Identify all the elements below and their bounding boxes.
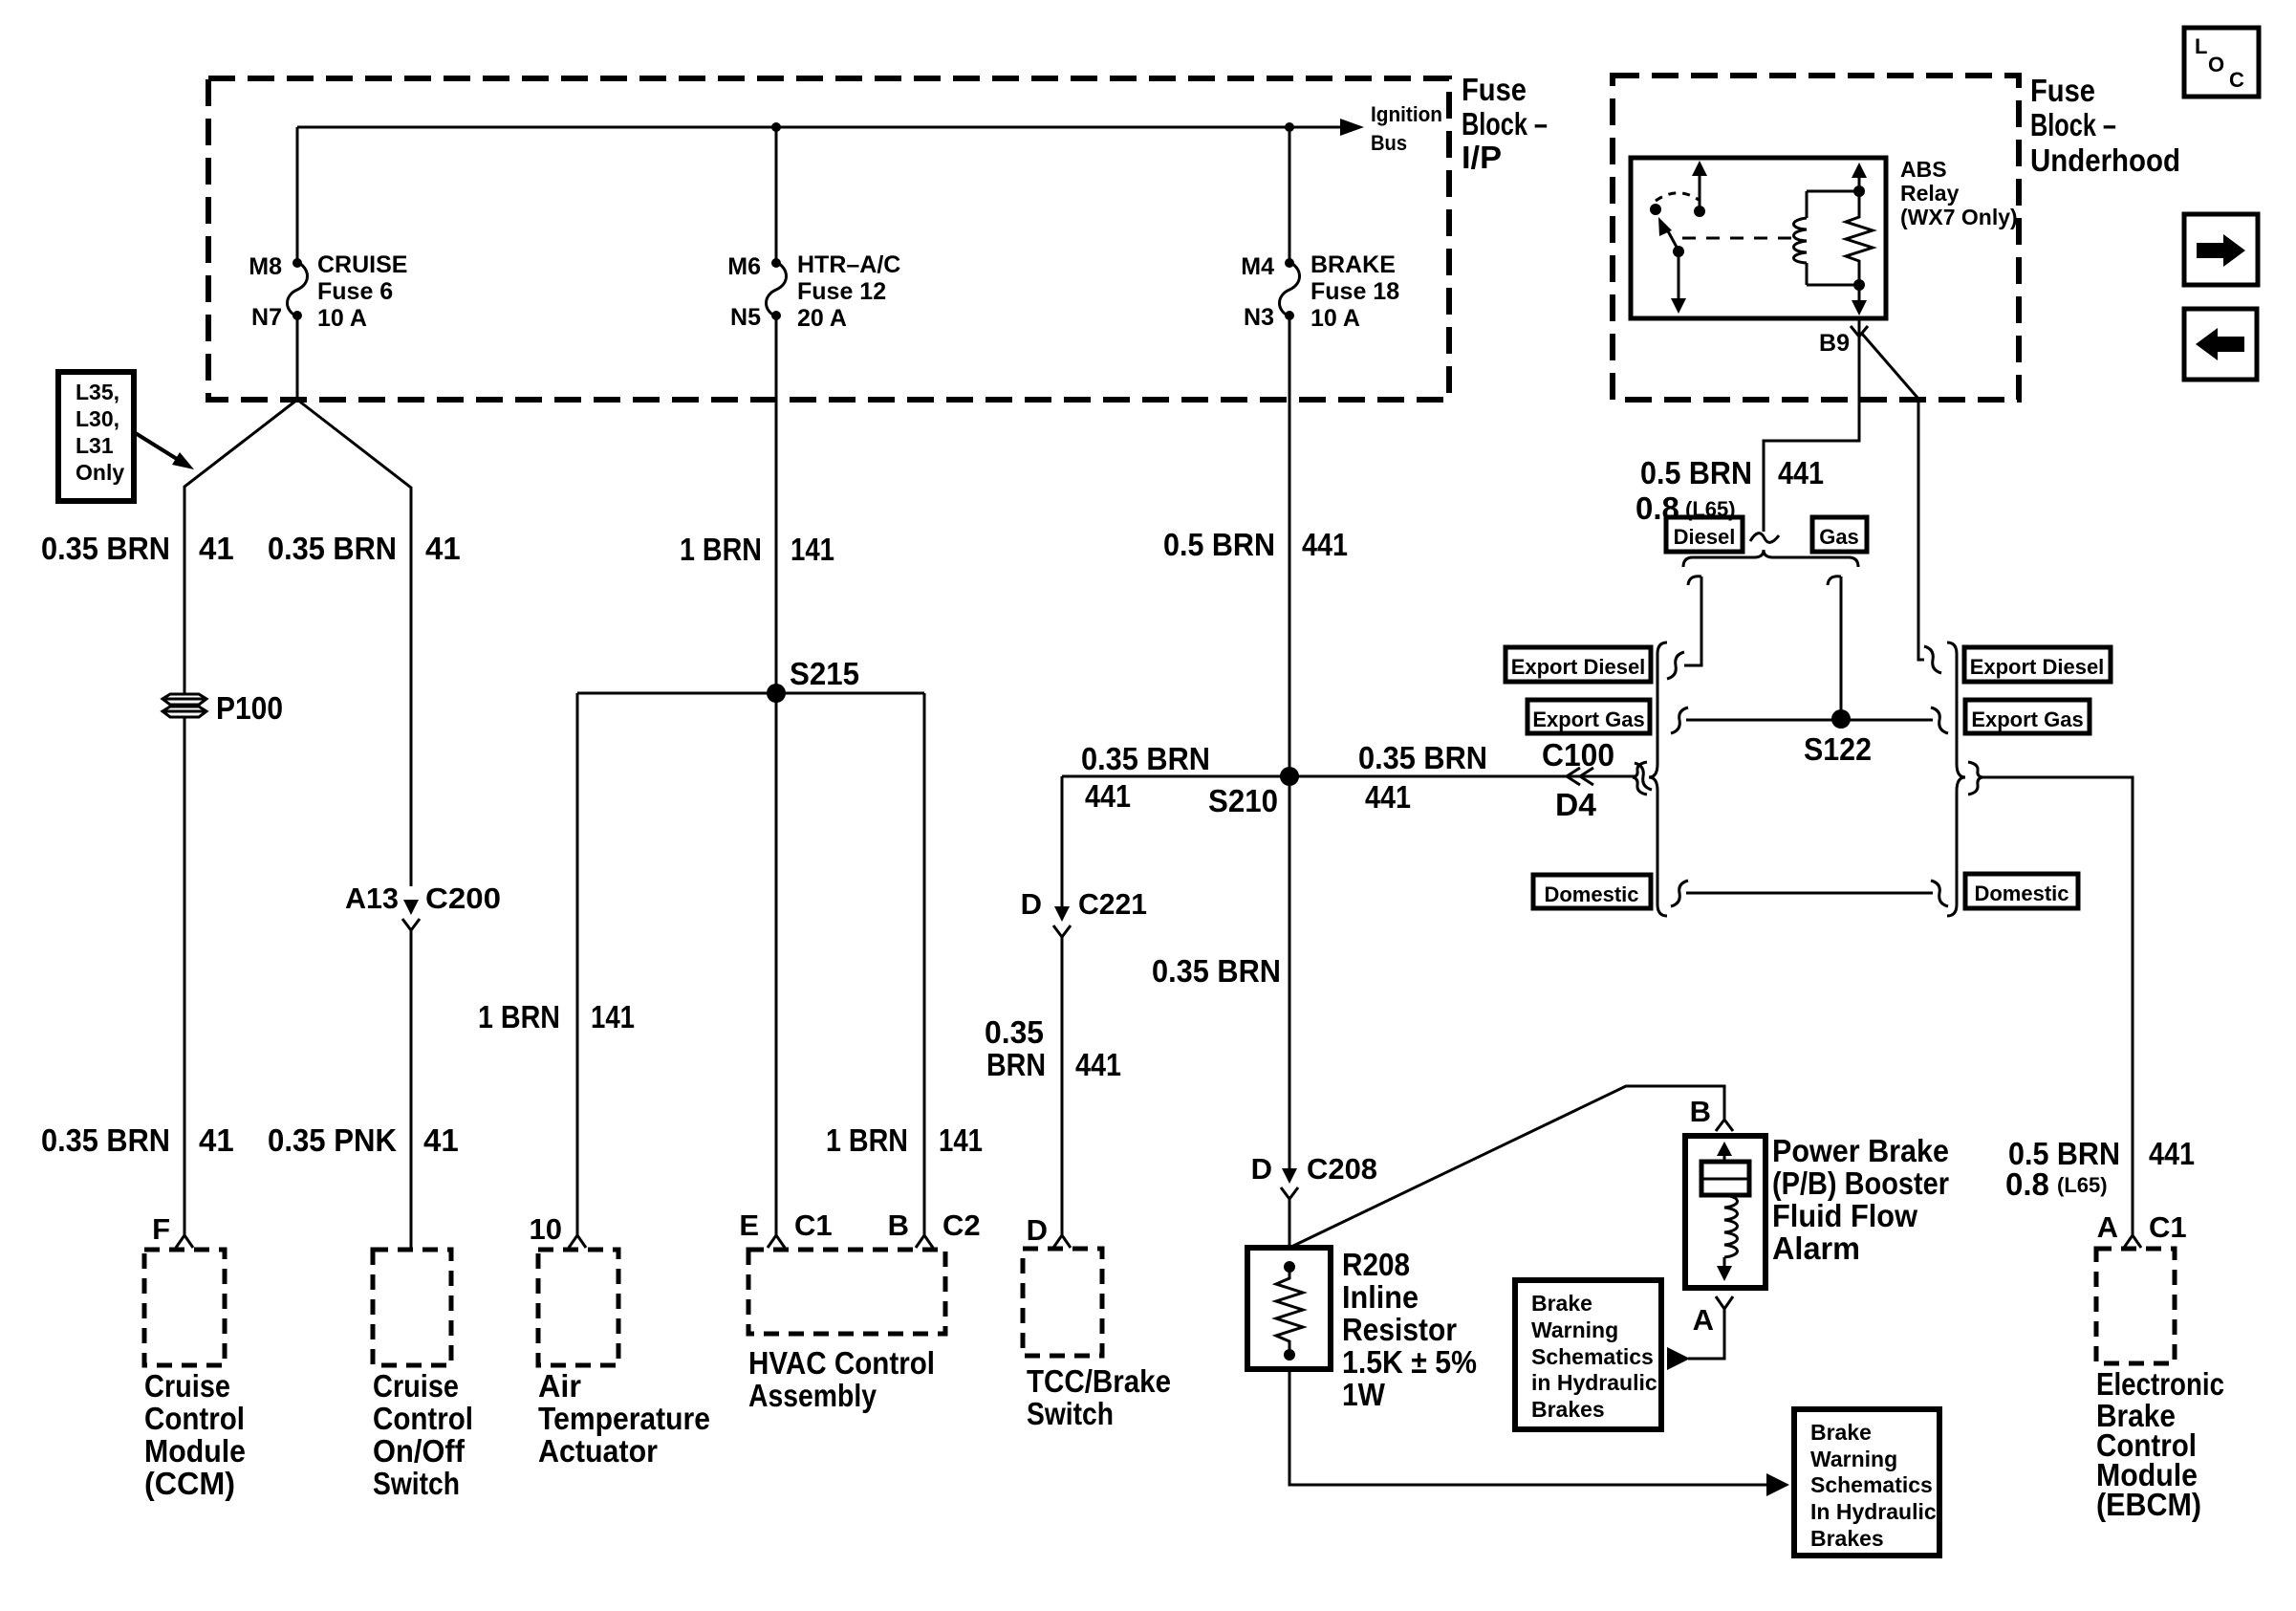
curl at D4 left row bbox=[1635, 763, 1652, 790]
svg-text:Fuse 12: Fuse 12 bbox=[797, 278, 886, 305]
label Power Brake (P/B) Booster Fluid Flow Alarm bbox=[1772, 1133, 1949, 1266]
wire B9 diagonal to export diesel right bbox=[1862, 334, 1924, 660]
boxed label Domestic left bbox=[1533, 875, 1651, 908]
boxed label Export Diesel left bbox=[1505, 647, 1651, 682]
label Fuse Block Underhood bbox=[2030, 73, 2180, 178]
box Cruise Control On/Off Switch dashed bbox=[373, 1250, 451, 1365]
svg-text:441: 441 bbox=[1365, 779, 1411, 815]
wire S122 row bbox=[1686, 719, 1933, 722]
svg-text:in Hydraulic: in Hydraulic bbox=[1531, 1370, 1657, 1395]
junction on bus at M6 wire bbox=[771, 122, 781, 132]
svg-text:1.5K ± 5%: 1.5K ± 5% bbox=[1342, 1344, 1477, 1380]
tall brace right bbox=[1947, 642, 1965, 916]
svg-text:Module: Module bbox=[144, 1433, 246, 1469]
fuse F12 HTR-A/C element bbox=[767, 262, 787, 316]
wire P100 to CCM bbox=[184, 717, 186, 1235]
svg-text:Resistor: Resistor bbox=[1342, 1312, 1457, 1347]
svg-text:Control: Control bbox=[373, 1401, 473, 1436]
svg-text:M4: M4 bbox=[1241, 253, 1274, 280]
wire Diesel branch bbox=[1684, 577, 1701, 665]
curl end above brace bbox=[1750, 533, 1779, 543]
relay armature arm with arrowhead bbox=[1667, 229, 1679, 250]
svg-text:M8: M8 bbox=[249, 253, 282, 280]
wire Gas branch to S122 bbox=[1828, 577, 1841, 719]
wire S210 horizontal to C100 bbox=[1062, 775, 1636, 778]
boxed label Export Diesel right bbox=[1964, 647, 2111, 682]
wire D4 right to EBCM bbox=[1982, 777, 2133, 1235]
svg-text:L: L bbox=[2195, 34, 2207, 58]
svg-text:Only: Only bbox=[76, 460, 124, 485]
callout arrow bbox=[134, 432, 177, 459]
svg-text:Power Brake: Power Brake bbox=[1772, 1133, 1949, 1168]
svg-text:BRAKE: BRAKE bbox=[1310, 251, 1396, 278]
svg-text:N3: N3 bbox=[1244, 304, 1274, 331]
box TCC/Brake Switch dashed bbox=[1023, 1249, 1102, 1356]
svg-text:0.35 BRN: 0.35 BRN bbox=[1358, 740, 1487, 775]
svg-text:A: A bbox=[2097, 1210, 2118, 1244]
relay top arrow to box edge bbox=[1858, 176, 1861, 191]
svg-text:Block –: Block – bbox=[1462, 106, 1548, 142]
svg-text:Brakes: Brakes bbox=[1531, 1397, 1605, 1422]
forward reference arrow box bbox=[2184, 214, 2258, 285]
arrow to brake warning box 2 bbox=[1766, 1473, 1789, 1496]
curl right Domestic row bbox=[1931, 881, 1948, 906]
svg-text:C221: C221 bbox=[1078, 887, 1147, 921]
svg-text:Brake: Brake bbox=[1810, 1420, 1872, 1445]
wire C221 to TCC switch bbox=[1061, 937, 1064, 1235]
relay coil bbox=[1794, 218, 1808, 263]
svg-text:1W: 1W bbox=[1342, 1377, 1386, 1412]
svg-text:0.35 BRN: 0.35 BRN bbox=[41, 1122, 170, 1158]
pin B9 connector bbox=[1851, 326, 1868, 337]
svg-text:(L65): (L65) bbox=[2057, 1173, 2108, 1197]
boxed label Gas bbox=[1812, 517, 1867, 552]
svg-text:41: 41 bbox=[425, 531, 461, 566]
svg-text:C200: C200 bbox=[425, 882, 501, 915]
pin D connector chevron TCC bbox=[1053, 1235, 1071, 1248]
svg-text:Domestic: Domestic bbox=[1974, 882, 2069, 905]
wire S215 to air temp actuator bbox=[576, 693, 579, 1235]
wire from bus to fuse 6 bbox=[296, 127, 299, 262]
svg-text:0.35: 0.35 bbox=[985, 1014, 1044, 1050]
svg-text:Export Diesel: Export Diesel bbox=[1511, 655, 1646, 679]
svg-text:Diesel: Diesel bbox=[1674, 525, 1736, 549]
box Air Temperature Actuator dashed bbox=[538, 1250, 618, 1365]
svg-text:(CCM): (CCM) bbox=[144, 1466, 235, 1501]
svg-text:ABS: ABS bbox=[1900, 157, 1947, 182]
wire S215 to HVAC E pin bbox=[775, 693, 778, 1235]
svg-text:Fuse: Fuse bbox=[1462, 72, 1527, 107]
box Power Brake Booster bbox=[1685, 1136, 1765, 1288]
svg-text:Ignition: Ignition bbox=[1371, 102, 1442, 126]
svg-text:Brakes: Brakes bbox=[1810, 1526, 1884, 1551]
relay resistor bbox=[1846, 191, 1873, 285]
LOC reference box bbox=[2184, 28, 2259, 97]
svg-text:441: 441 bbox=[1778, 455, 1824, 490]
svg-text:20 A: 20 A bbox=[797, 305, 847, 332]
svg-text:0.5 BRN: 0.5 BRN bbox=[1163, 527, 1275, 562]
svg-text:Schematics: Schematics bbox=[1810, 1472, 1933, 1497]
svg-text:Block –: Block – bbox=[2030, 107, 2116, 142]
svg-text:D4: D4 bbox=[1555, 787, 1597, 822]
svg-text:441: 441 bbox=[2149, 1136, 2195, 1171]
box Cruise Control Module dashed bbox=[144, 1250, 225, 1365]
svg-text:O: O bbox=[2208, 53, 2224, 76]
booster sensor element rect bbox=[1701, 1162, 1749, 1195]
connector C208 inline bbox=[1282, 1168, 1297, 1184]
arrow ignition bus bbox=[1340, 119, 1364, 136]
wire C200 to switch bbox=[410, 930, 413, 1250]
wire fuse 6 to fork bbox=[296, 316, 299, 400]
pin A connector chevron bbox=[1716, 1296, 1733, 1309]
svg-text:L35,: L35, bbox=[76, 380, 119, 404]
svg-text:Fuse 6: Fuse 6 bbox=[317, 278, 393, 305]
svg-text:Actuator: Actuator bbox=[538, 1433, 658, 1469]
svg-text:0.8: 0.8 bbox=[2005, 1166, 2049, 1202]
svg-text:N7: N7 bbox=[251, 304, 282, 331]
wire R208 to brake warning ref 2 bbox=[1289, 1369, 1766, 1485]
svg-text:A: A bbox=[1693, 1303, 1714, 1337]
relay lower arm arrow down bbox=[1678, 251, 1680, 300]
wire S210 down to C208 bbox=[1289, 776, 1291, 1168]
connector C200 inline bbox=[403, 900, 419, 915]
svg-text:P100: P100 bbox=[216, 690, 283, 726]
fuse block I/P dashed box bbox=[208, 78, 1449, 400]
curl left S122 row bbox=[1671, 708, 1688, 733]
pin B C2 connector chevron bbox=[916, 1235, 933, 1248]
connector C100 chevrons bbox=[1567, 768, 1593, 785]
label BRAKE Fuse 18 10 A bbox=[1310, 251, 1399, 332]
svg-text:Electronic: Electronic bbox=[2096, 1366, 2224, 1402]
wire S215 branch bar bbox=[577, 692, 924, 695]
svg-text:(EBCM): (EBCM) bbox=[2096, 1487, 2201, 1522]
fuse F6 CRUISE element bbox=[288, 262, 308, 316]
svg-text:Switch: Switch bbox=[1027, 1396, 1114, 1431]
svg-text:1 BRN: 1 BRN bbox=[478, 999, 560, 1034]
label CRUISE Fuse 6 10 A bbox=[317, 251, 407, 332]
label HTR-A/C Fuse 12 20 A bbox=[797, 251, 900, 332]
relay dashed link bbox=[1682, 237, 1792, 240]
svg-text:Inline: Inline bbox=[1342, 1279, 1419, 1315]
svg-text:0.35 BRN: 0.35 BRN bbox=[1152, 953, 1281, 989]
booster arrow down bbox=[1723, 1257, 1726, 1268]
svg-text:R208: R208 bbox=[1342, 1247, 1410, 1282]
svg-text:C2: C2 bbox=[942, 1208, 981, 1242]
svg-text:Air: Air bbox=[538, 1368, 581, 1404]
svg-text:Relay: Relay bbox=[1900, 181, 1960, 206]
svg-text:Domestic: Domestic bbox=[1544, 882, 1638, 906]
wire diagonal R208 to booster B bbox=[1289, 1086, 1724, 1248]
svg-text:41: 41 bbox=[423, 1122, 459, 1158]
arrow to brake warning box 1 bbox=[1667, 1347, 1690, 1370]
svg-text:Underhood: Underhood bbox=[2030, 142, 2180, 178]
svg-text:41: 41 bbox=[199, 1122, 234, 1158]
svg-text:D: D bbox=[1021, 887, 1042, 921]
box EBCM dashed bbox=[2096, 1249, 2175, 1363]
boxed label Diesel bbox=[1666, 517, 1743, 552]
svg-text:141: 141 bbox=[939, 1122, 983, 1158]
svg-text:C: C bbox=[2229, 68, 2244, 92]
label ABS Relay (WX7 Only) bbox=[1900, 157, 2018, 229]
callout box L35 L30 L31 Only bbox=[58, 372, 134, 501]
svg-text:0.35 BRN: 0.35 BRN bbox=[41, 531, 170, 566]
node S215 bbox=[767, 684, 786, 703]
curl right S122 row bbox=[1931, 708, 1948, 733]
relay switch common arrow up bbox=[1699, 174, 1701, 211]
label Fuse Block I/P bbox=[1462, 72, 1548, 175]
brace under Diesel and Gas bbox=[1683, 550, 1858, 567]
svg-text:L30,: L30, bbox=[76, 406, 119, 431]
back reference arrow box bbox=[2184, 309, 2257, 380]
relay node bottom bbox=[1853, 279, 1865, 291]
boxed label Domestic right bbox=[1965, 874, 2078, 908]
svg-text:Warning: Warning bbox=[1810, 1447, 1897, 1471]
svg-text:141: 141 bbox=[791, 532, 834, 567]
boxed label Export Gas right bbox=[1965, 700, 2090, 733]
svg-text:C1: C1 bbox=[794, 1208, 833, 1242]
curl end diesel branch bbox=[1667, 652, 1684, 679]
svg-text:Bus: Bus bbox=[1371, 131, 1407, 155]
svg-text:441: 441 bbox=[1075, 1047, 1121, 1082]
svg-text:S122: S122 bbox=[1804, 731, 1872, 767]
svg-text:1 BRN: 1 BRN bbox=[680, 532, 762, 567]
wire C208 to R208 bbox=[1289, 1199, 1291, 1248]
label R208 Inline Resistor 1.5K 5% 1W bbox=[1342, 1247, 1477, 1412]
relay inner top and bottom wires bbox=[1807, 191, 1859, 285]
svg-text:441: 441 bbox=[1085, 778, 1131, 814]
svg-text:I/P: I/P bbox=[1462, 140, 1502, 175]
svg-text:Brake: Brake bbox=[1531, 1291, 1592, 1316]
svg-text:Export Diesel: Export Diesel bbox=[1970, 655, 2105, 679]
svg-text:0.5 BRN: 0.5 BRN bbox=[1640, 455, 1752, 490]
svg-text:B9: B9 bbox=[1819, 330, 1850, 357]
wire from bus to fuse 18 bbox=[1289, 127, 1291, 262]
pin F connector chevron bbox=[176, 1235, 193, 1248]
curl end export diesel right row bbox=[1924, 646, 1941, 673]
svg-text:C208: C208 bbox=[1307, 1152, 1377, 1186]
svg-text:(P/B) Booster: (P/B) Booster bbox=[1772, 1165, 1949, 1201]
svg-text:CRUISE: CRUISE bbox=[317, 251, 407, 278]
resistor R208 element bbox=[1284, 1261, 1295, 1273]
curl at D4 right row bbox=[1968, 762, 1982, 795]
pin E C1 connector chevron bbox=[768, 1235, 785, 1248]
svg-text:0.35 PNK: 0.35 PNK bbox=[268, 1122, 397, 1158]
wire from bus to fuse 12 bbox=[775, 127, 778, 262]
relay switch dashed arc bbox=[1656, 193, 1699, 201]
wire S215 right branch to HVAC B pin bbox=[923, 693, 926, 1235]
svg-text:S215: S215 bbox=[790, 656, 859, 691]
fuse block Underhood dashed box bbox=[1613, 76, 2019, 400]
relay node top bbox=[1853, 185, 1865, 197]
fuse F18 BRAKE element bbox=[1280, 262, 1300, 316]
svg-text:Cruise: Cruise bbox=[144, 1368, 230, 1404]
wire ignition bus bbox=[297, 126, 1340, 129]
svg-text:10: 10 bbox=[530, 1212, 562, 1246]
svg-text:Export Gas: Export Gas bbox=[1532, 708, 1644, 731]
svg-text:A13: A13 bbox=[345, 882, 399, 915]
svg-text:0.35 BRN: 0.35 BRN bbox=[1081, 741, 1210, 776]
curl end at C100 bbox=[1633, 762, 1647, 795]
resistor R208 box bbox=[1247, 1248, 1331, 1369]
box Brake Warning Schematics 1 bbox=[1515, 1280, 1661, 1429]
junction on bus at M4 wire bbox=[1285, 122, 1294, 132]
ABS relay box bbox=[1631, 158, 1886, 318]
svg-text:1 BRN: 1 BRN bbox=[826, 1122, 908, 1158]
wire fuse 12 to S215 bbox=[775, 316, 778, 693]
box Brake Warning Schematics 2 bbox=[1794, 1409, 1939, 1556]
svg-text:Schematics: Schematics bbox=[1531, 1344, 1654, 1369]
connector C221 inline bbox=[1054, 906, 1070, 922]
wire fuse 18 to S210 bbox=[1289, 316, 1291, 776]
booster arrow up bbox=[1723, 1154, 1726, 1162]
svg-text:B: B bbox=[1690, 1095, 1711, 1128]
svg-text:Assembly: Assembly bbox=[748, 1378, 877, 1413]
svg-text:Cruise: Cruise bbox=[373, 1368, 459, 1404]
pin B connector chevron bbox=[1716, 1120, 1733, 1131]
svg-text:In Hydraulic: In Hydraulic bbox=[1810, 1499, 1937, 1524]
relay bottom arrow to box edge bbox=[1858, 285, 1861, 302]
svg-text:TCC/Brake: TCC/Brake bbox=[1027, 1363, 1171, 1399]
pin A C1 connector chevron EBCM bbox=[2124, 1235, 2141, 1248]
svg-text:Temperature: Temperature bbox=[538, 1401, 710, 1436]
svg-text:HTR–A/C: HTR–A/C bbox=[797, 251, 900, 278]
wire A to brake warning ref 1 bbox=[1688, 1309, 1724, 1359]
svg-text:Switch: Switch bbox=[373, 1466, 460, 1501]
svg-text:Fuse 18: Fuse 18 bbox=[1310, 278, 1399, 305]
svg-text:141: 141 bbox=[591, 999, 635, 1034]
pin 10 connector chevron bbox=[569, 1235, 586, 1248]
label Ignition Bus bbox=[1371, 102, 1442, 155]
svg-text:M6: M6 bbox=[727, 253, 761, 280]
svg-text:F: F bbox=[152, 1212, 170, 1246]
svg-text:D: D bbox=[1027, 1213, 1048, 1247]
svg-text:441: 441 bbox=[1302, 527, 1348, 562]
svg-text:Gas: Gas bbox=[1819, 525, 1859, 549]
svg-text:(WX7 Only): (WX7 Only) bbox=[1900, 205, 2018, 229]
svg-text:Control: Control bbox=[144, 1401, 245, 1436]
svg-text:E: E bbox=[739, 1208, 759, 1242]
relay switch pivot contact bbox=[1650, 204, 1661, 215]
svg-text:C1: C1 bbox=[2149, 1210, 2187, 1244]
svg-text:10 A: 10 A bbox=[317, 305, 367, 332]
svg-text:D: D bbox=[1251, 1152, 1272, 1186]
wire S210 down to C221 branch bbox=[1061, 776, 1064, 906]
svg-text:Fuse: Fuse bbox=[2030, 73, 2095, 108]
svg-text:B: B bbox=[888, 1208, 909, 1242]
node S122 bbox=[1831, 709, 1851, 729]
wire B9 down-left to diesel/gas split bbox=[1764, 318, 1859, 532]
booster coil bbox=[1724, 1195, 1738, 1257]
wire fork from fuse 6 bbox=[184, 400, 297, 694]
svg-text:Fluid Flow: Fluid Flow bbox=[1772, 1198, 1917, 1233]
svg-text:0.8: 0.8 bbox=[1635, 490, 1679, 526]
svg-text:N5: N5 bbox=[730, 304, 761, 331]
box HVAC Control Assembly dashed bbox=[748, 1250, 945, 1334]
svg-text:S210: S210 bbox=[1208, 783, 1278, 818]
svg-text:BRN: BRN bbox=[986, 1047, 1046, 1082]
connector P100 bbox=[162, 694, 206, 717]
svg-text:Alarm: Alarm bbox=[1772, 1230, 1860, 1266]
svg-text:0.35 BRN: 0.35 BRN bbox=[268, 531, 397, 566]
svg-text:41: 41 bbox=[199, 531, 234, 566]
wire Domestic row bbox=[1686, 892, 1933, 895]
svg-text:L31: L31 bbox=[76, 433, 114, 458]
boxed label Export Gas left bbox=[1527, 700, 1650, 733]
svg-text:On/Off: On/Off bbox=[373, 1433, 466, 1469]
node S210 bbox=[1280, 767, 1299, 786]
svg-text:Export Gas: Export Gas bbox=[1971, 708, 2083, 731]
svg-text:10 A: 10 A bbox=[1310, 305, 1360, 332]
curl left Domestic row bbox=[1671, 881, 1688, 906]
svg-text:Warning: Warning bbox=[1531, 1317, 1618, 1342]
svg-text:HVAC Control: HVAC Control bbox=[748, 1345, 935, 1381]
tall brace left bbox=[1649, 642, 1667, 916]
svg-text:C100: C100 bbox=[1542, 737, 1614, 773]
